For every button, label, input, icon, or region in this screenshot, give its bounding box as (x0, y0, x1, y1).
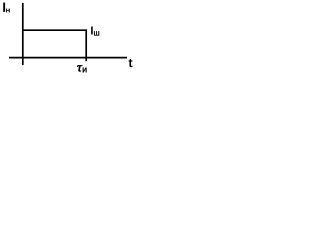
label Iш: letter I (91, 27, 92, 35)
label Iн: letter I (4, 3, 5, 12)
label τи: letter τ (77, 65, 82, 71)
pulse falling edge at tau_i (85, 29, 87, 61)
label τи: subscript и (83, 68, 87, 73)
y-axis (current axis) (22, 3, 24, 65)
label Iш: subscript ш (94, 31, 99, 35)
pulse top edge (22, 29, 86, 31)
label t (time axis) (129, 59, 132, 67)
x-axis (time axis) (9, 57, 127, 59)
label Iн: subscript н (6, 9, 9, 13)
